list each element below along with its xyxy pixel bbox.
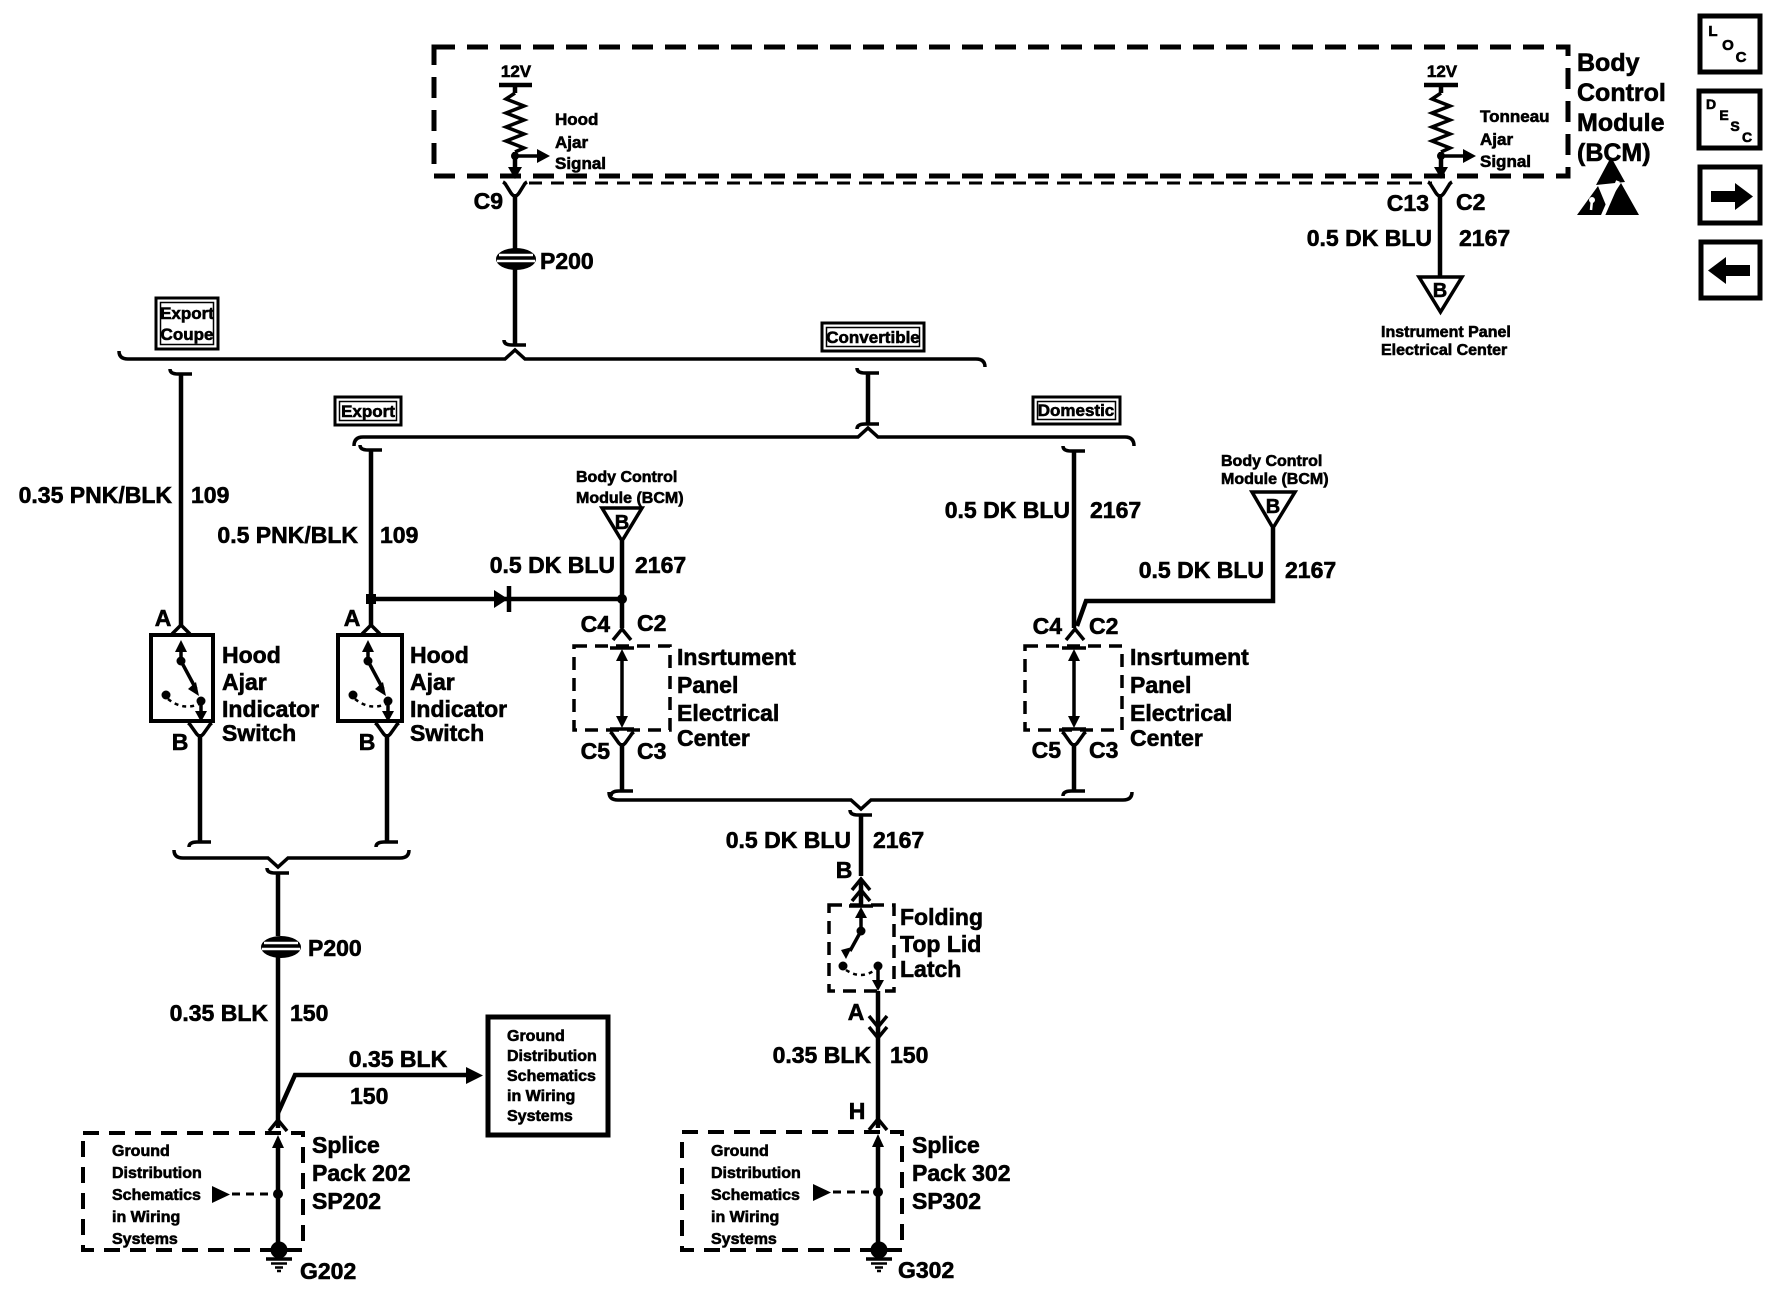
label Insrtument Panel Electrical Center domestic	[1130, 644, 1249, 751]
svg-text:Top Lid: Top Lid	[900, 931, 981, 957]
LOC icon box	[1700, 16, 1760, 72]
svg-text:Hood: Hood	[555, 110, 598, 129]
node hood signal junction	[511, 152, 519, 160]
svg-text:C9: C9	[474, 188, 503, 214]
DESC icon box	[1699, 91, 1760, 148]
wire	[876, 991, 881, 1128]
svg-text:Ground: Ground	[507, 1028, 565, 1045]
svg-text:C: C	[1736, 49, 1747, 66]
svg-text:Folding: Folding	[900, 904, 983, 930]
connector C5/C3 export IPEC	[581, 732, 667, 764]
wire latch feed	[850, 810, 872, 876]
wire BCM domestic to C2	[1077, 528, 1273, 626]
svg-text:Ajar: Ajar	[410, 669, 455, 695]
label Hood Ajar Indicator Switch S2	[410, 642, 507, 746]
svg-text:Switch: Switch	[222, 720, 296, 746]
svg-text:Hood: Hood	[222, 642, 281, 668]
svg-text:C4: C4	[581, 611, 611, 637]
wire	[1439, 152, 1444, 170]
wire label 0.35 BLK 150 branch	[349, 1046, 448, 1109]
svg-text:Distribution: Distribution	[112, 1165, 202, 1182]
svg-text:0.5 DK BLU: 0.5 DK BLU	[490, 552, 615, 578]
wire to P200 lower	[267, 868, 289, 936]
wire label 0.35 BLK 150 ground	[170, 1000, 329, 1026]
hood ajar signal arrow	[515, 149, 550, 163]
svg-text:Systems: Systems	[711, 1231, 777, 1248]
label Folding Top Lid Latch	[900, 904, 983, 982]
svg-text:2167: 2167	[1285, 557, 1336, 583]
svg-text:G302: G302	[898, 1257, 954, 1283]
svg-text:Insrtument: Insrtument	[1130, 644, 1249, 670]
svg-text:Electrical: Electrical	[677, 700, 779, 726]
svg-text:0.5 DK BLU: 0.5 DK BLU	[1139, 557, 1264, 583]
svg-text:C2: C2	[637, 610, 666, 636]
label Body Control Module (BCM) top right	[1577, 49, 1666, 167]
label Insrtument Panel Electrical Center export	[677, 644, 796, 751]
svg-text:109: 109	[380, 522, 418, 548]
svg-text:C3: C3	[637, 738, 666, 764]
svg-text:Indicator: Indicator	[410, 696, 507, 722]
svg-text:Module: Module	[1577, 109, 1665, 137]
svg-text:Module (BCM): Module (BCM)	[576, 490, 684, 507]
wire branch to ground distribution reference	[278, 1067, 483, 1113]
svg-text:Center: Center	[677, 725, 750, 751]
svg-text:B: B	[359, 729, 376, 755]
svg-text:150: 150	[350, 1083, 388, 1109]
wire	[1438, 194, 1443, 277]
svg-text:Tonneau: Tonneau	[1480, 107, 1550, 126]
connector C9	[474, 182, 527, 214]
connector pass-through dashed line	[529, 182, 1432, 185]
wire label 0.5 DK BLU 2167 domestic	[945, 497, 1141, 523]
wire	[513, 152, 518, 170]
svg-text:D: D	[1706, 96, 1716, 112]
option label Convertible	[822, 323, 924, 351]
wire export to BCM branch	[371, 597, 622, 602]
svg-text:in Wiring: in Wiring	[711, 1209, 779, 1226]
svg-text:in Wiring: in Wiring	[112, 1209, 180, 1226]
svg-text:C4: C4	[1033, 613, 1063, 639]
svg-text:Control: Control	[1577, 79, 1666, 107]
svg-text:in Wiring: in Wiring	[507, 1088, 575, 1105]
label Body Control Module (BCM) domestic	[1221, 453, 1329, 488]
svg-text:0.5 DK BLU: 0.5 DK BLU	[1307, 225, 1432, 251]
splice pack 202 dashed box	[83, 1133, 303, 1250]
nav arrow left icon box	[1701, 242, 1760, 298]
triangle connector B from BCM domestic	[1252, 492, 1295, 528]
ground G202	[266, 1242, 356, 1285]
svg-text:Pack 202: Pack 202	[312, 1160, 410, 1186]
IPEC dashed box domestic	[1025, 646, 1122, 730]
wire	[504, 269, 526, 345]
svg-text:C2: C2	[1456, 189, 1485, 215]
wire label 0.5 DK BLU 2167	[1307, 225, 1510, 251]
svg-text:S: S	[1730, 118, 1739, 134]
12V supply (tonneau side)	[1424, 62, 1458, 93]
connector B of S1	[172, 723, 212, 755]
svg-text:O: O	[1722, 37, 1734, 54]
svg-text:0.5 PNK/BLK: 0.5 PNK/BLK	[217, 522, 358, 548]
hood ajar indicator switch S1	[151, 605, 213, 722]
svg-text:2167: 2167	[873, 827, 924, 853]
wire export drop	[360, 445, 382, 626]
option label Domestic	[1033, 397, 1120, 424]
wire label 0.5 DK BLU 2167 domestic BCM	[1139, 557, 1336, 583]
label Hood Ajar Signal	[555, 110, 606, 173]
svg-text:Export: Export	[341, 402, 395, 421]
svg-text:150: 150	[890, 1042, 928, 1068]
svg-text:Body Control: Body Control	[1221, 453, 1322, 470]
svg-text:Splice: Splice	[912, 1132, 980, 1158]
svg-text:Ajar: Ajar	[555, 133, 588, 152]
svg-text:Schematics: Schematics	[711, 1187, 800, 1204]
svg-text:A: A	[848, 999, 865, 1025]
svg-text:Pack 302: Pack 302	[912, 1160, 1010, 1186]
wire label 0.5 PNK/BLK 109	[217, 522, 418, 548]
wire	[620, 541, 625, 628]
svg-text:Coupe: Coupe	[161, 325, 214, 344]
wire export coupe drop	[170, 369, 192, 626]
wire bus1 to bus2 link	[857, 368, 879, 429]
svg-text:C5: C5	[581, 738, 611, 764]
wire	[189, 734, 211, 847]
svg-text:Switch: Switch	[410, 720, 484, 746]
tonneau ajar signal arrow	[1441, 149, 1476, 163]
IPEC dashed box export	[574, 646, 670, 730]
svg-text:Domestic: Domestic	[1038, 401, 1115, 420]
triangle connector B from BCM export	[602, 508, 642, 541]
wire	[376, 734, 398, 847]
inline connector symbol on wire	[494, 586, 509, 612]
svg-text:Insrtument: Insrtument	[677, 644, 796, 670]
svg-text:Distribution: Distribution	[711, 1165, 801, 1182]
bus brace 3 (IPEC outputs merge)	[609, 792, 1132, 809]
svg-text:2167: 2167	[1090, 497, 1141, 523]
splice pack 302 dashed box	[682, 1132, 902, 1250]
resistor R2 tonneau ajar pull-up	[1432, 93, 1450, 152]
wire splice SP202	[272, 1135, 284, 1245]
reference arrow SP202	[212, 1186, 269, 1203]
label Hood Ajar Indicator Switch S1	[222, 642, 319, 746]
svg-text:Ajar: Ajar	[222, 669, 267, 695]
svg-text:L: L	[1708, 23, 1717, 40]
svg-text:Ground: Ground	[112, 1143, 170, 1160]
reference arrow SP302	[813, 1184, 869, 1201]
svg-text:0.35 BLK: 0.35 BLK	[349, 1046, 448, 1072]
label Splice Pack 302 SP302	[912, 1132, 1010, 1214]
connector C4/C2 export IPEC	[581, 610, 667, 640]
svg-text:Center: Center	[1130, 725, 1203, 751]
svg-text:Module (BCM): Module (BCM)	[1221, 471, 1329, 488]
grommet P200 lower	[261, 935, 362, 961]
nav arrow right icon box	[1700, 167, 1760, 223]
triangle connector B to instrument panel electrical center	[1419, 277, 1462, 312]
connector C5/C3 domestic IPEC	[1032, 732, 1119, 763]
svg-text:B: B	[836, 857, 853, 883]
connector B of latch	[836, 857, 870, 905]
svg-text:Body: Body	[1577, 49, 1640, 77]
BCM dashed box U1	[434, 47, 1568, 176]
svg-text:A: A	[155, 605, 172, 631]
svg-text:SP302: SP302	[912, 1188, 981, 1214]
bus brace 2 (export/domestic split)	[354, 428, 1134, 446]
wire domestic drop	[1063, 446, 1085, 628]
svg-text:P200: P200	[308, 935, 362, 961]
svg-text:Instrument Panel: Instrument Panel	[1381, 324, 1511, 341]
svg-text:109: 109	[191, 482, 229, 508]
node junction dot	[617, 594, 627, 604]
svg-text:B: B	[615, 512, 629, 534]
node SP302	[873, 1187, 883, 1197]
svg-text:Ground: Ground	[711, 1143, 769, 1160]
node splice on export drop	[366, 594, 376, 604]
svg-text:2167: 2167	[635, 552, 686, 578]
svg-text:B: B	[1433, 280, 1447, 302]
svg-text:Ajar: Ajar	[1480, 130, 1513, 149]
svg-text:Systems: Systems	[507, 1108, 573, 1125]
label Splice Pack 202 SP202	[312, 1132, 410, 1214]
label Instrument Panel Electrical Center	[1381, 324, 1511, 359]
svg-text:Signal: Signal	[1480, 152, 1531, 171]
svg-text:Panel: Panel	[677, 672, 738, 698]
wire label 0.35 BLK 150 latch ground	[773, 1042, 929, 1068]
svg-text:C5: C5	[1032, 737, 1062, 763]
arrowhead into connector C9	[508, 167, 522, 179]
svg-text:G202: G202	[300, 1258, 356, 1284]
ground G302	[866, 1242, 954, 1284]
svg-text:H: H	[849, 1098, 866, 1124]
svg-text:Schematics: Schematics	[112, 1187, 201, 1204]
connector C13	[1387, 182, 1486, 216]
svg-text:C3: C3	[1089, 737, 1118, 763]
svg-text:2167: 2167	[1459, 225, 1510, 251]
svg-text:150: 150	[290, 1000, 328, 1026]
svg-text:Distribution: Distribution	[507, 1048, 597, 1065]
connector C4/C2 domestic IPEC	[1033, 613, 1119, 640]
node tonneau signal junction	[1437, 152, 1445, 160]
wire label 0.5 DK BLU 2167 export	[490, 552, 686, 578]
bus brace 4 (switch outputs merge)	[174, 850, 409, 867]
option label Export	[335, 397, 401, 425]
svg-text:Convertible: Convertible	[826, 328, 920, 347]
svg-text:A: A	[344, 605, 361, 631]
svg-text:Latch: Latch	[900, 956, 961, 982]
svg-text:0.35 PNK/BLK: 0.35 PNK/BLK	[19, 482, 173, 508]
ESD warning symbol	[1577, 157, 1639, 220]
wire	[611, 743, 633, 796]
svg-text:E: E	[1719, 107, 1728, 123]
option label Export Coupe	[156, 298, 218, 349]
connector H of SP302	[849, 1098, 887, 1130]
folding top lid latch switch dashed box	[829, 905, 894, 991]
wire	[276, 957, 281, 1113]
svg-text:Body Control: Body Control	[576, 469, 677, 486]
svg-text:C: C	[1742, 129, 1752, 145]
svg-text:Electrical Center: Electrical Center	[1381, 342, 1507, 359]
grommet P200 upper	[496, 248, 594, 274]
svg-text:0.5 DK BLU: 0.5 DK BLU	[726, 827, 851, 853]
wire into SP202	[269, 1113, 287, 1131]
ground distribution schematics reference box	[488, 1017, 608, 1135]
svg-text:P200: P200	[540, 248, 594, 274]
label Ground Distribution Schematics in Wiring Systems SP302	[711, 1143, 801, 1248]
node SP202	[273, 1189, 283, 1199]
connector A of latch	[848, 999, 887, 1038]
wire	[513, 194, 518, 249]
wire splice SP302	[872, 1134, 884, 1244]
bus brace 1 (coupe/convertible split)	[119, 350, 985, 367]
label Tonneau Ajar Signal	[1480, 107, 1550, 171]
connector B of S2	[359, 723, 399, 755]
arrowhead into connector C13	[1434, 167, 1448, 179]
svg-text:Schematics: Schematics	[507, 1068, 596, 1085]
svg-text:0.5 DK BLU: 0.5 DK BLU	[945, 497, 1070, 523]
svg-text:C2: C2	[1089, 613, 1118, 639]
wire label 0.35 PNK/BLK 109	[19, 482, 230, 508]
svg-text:B: B	[172, 729, 189, 755]
svg-text:Indicator: Indicator	[222, 696, 319, 722]
svg-text:Splice: Splice	[312, 1132, 380, 1158]
12V supply (hood side)	[499, 62, 532, 93]
svg-text:B: B	[1266, 496, 1280, 518]
hood ajar indicator switch S2	[338, 605, 402, 722]
svg-text:12V: 12V	[501, 62, 532, 81]
svg-text:SP202: SP202	[312, 1188, 381, 1214]
svg-text:C13: C13	[1387, 190, 1429, 216]
label Body Control Module (BCM) export	[576, 469, 684, 507]
svg-text:0.35 BLK: 0.35 BLK	[773, 1042, 872, 1068]
svg-text:0.35 BLK: 0.35 BLK	[170, 1000, 269, 1026]
svg-text:Electrical: Electrical	[1130, 700, 1232, 726]
svg-text:Hood: Hood	[410, 642, 469, 668]
svg-text:Panel: Panel	[1130, 672, 1191, 698]
svg-text:12V: 12V	[1427, 62, 1458, 81]
resistor R1 hood ajar pull-up	[506, 93, 524, 152]
svg-text:Signal: Signal	[555, 154, 606, 173]
wire	[1063, 743, 1085, 796]
svg-text:Export: Export	[160, 304, 214, 323]
wire label 0.5 DK BLU 2167 latch	[726, 827, 924, 853]
label Ground Distribution Schematics in Wiring Systems SP202	[112, 1143, 202, 1248]
svg-text:Systems: Systems	[112, 1231, 178, 1248]
